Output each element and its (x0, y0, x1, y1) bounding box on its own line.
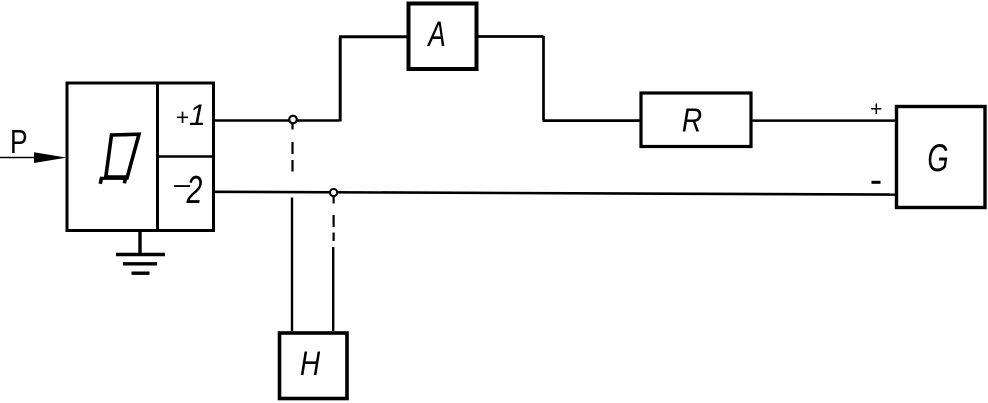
block D (detector) outer rectangle (67, 83, 214, 231)
wire: R to G plus terminal (751, 119, 896, 122)
polarity label minus at G (872, 181, 881, 184)
wire: -2 terminal to G minus terminal (214, 192, 897, 195)
wire: +1 terminal to riser of A (214, 119, 340, 122)
node 1 (junction on +1 wire) (289, 116, 297, 124)
svg-text:P: P (10, 124, 28, 160)
wire: A output down to R (477, 36, 640, 121)
svg-text:H: H (300, 344, 321, 382)
recorder H (280, 333, 348, 399)
resistor R (641, 93, 751, 147)
pin label -2 (173, 169, 202, 213)
amplifier A (409, 4, 477, 70)
dashed wire: node 1 down to H (291, 124, 294, 332)
ground (116, 231, 165, 274)
svg-text:A: A (427, 14, 446, 54)
galvanometer G (897, 107, 986, 208)
input arrow P (0, 152, 67, 163)
svg-text:G: G (927, 137, 948, 180)
wire: riser up and into A (339, 37, 407, 122)
svg-text:2: 2 (186, 169, 203, 212)
svg-text:+: + (870, 98, 882, 121)
node 2 (junction on -2 wire) (330, 189, 337, 196)
svg-text:R: R (682, 102, 702, 139)
dashed wire: node 2 down to H (332, 196, 335, 331)
label D (Cyrillic De, hand-drawn outline) (100, 134, 139, 184)
svg-text:+1: +1 (176, 99, 206, 132)
